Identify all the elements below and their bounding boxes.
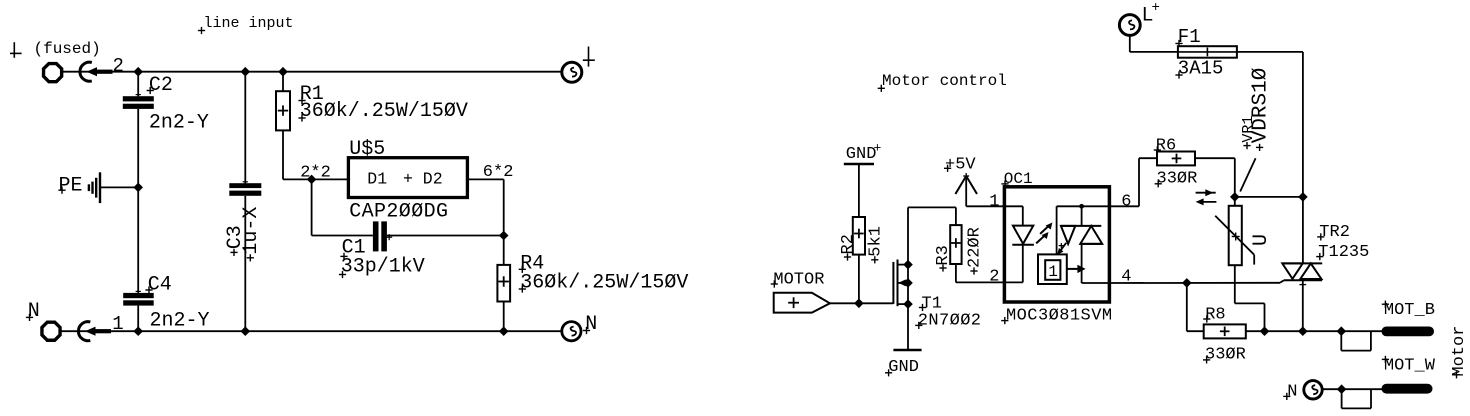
svg-text:1u-X: 1u-X	[240, 207, 263, 255]
svg-text:2: 2	[113, 55, 124, 77]
svg-text:MOT_B: MOT_B	[1384, 301, 1435, 320]
svg-text:2n2-Y: 2n2-Y	[150, 310, 210, 333]
svg-text:+: +	[1152, 0, 1160, 16]
svg-text:2N7ØØ2: 2N7ØØ2	[918, 311, 982, 330]
svg-text:PE: PE	[59, 175, 83, 198]
svg-text:N: N	[1287, 383, 1297, 402]
svg-text:line input: line input	[204, 15, 294, 32]
svg-text:33ØR: 33ØR	[1157, 169, 1198, 188]
svg-text:3A15: 3A15	[1178, 57, 1224, 79]
svg-text:22ØR: 22ØR	[966, 227, 985, 268]
svg-text:1: 1	[1048, 263, 1058, 281]
svg-text:MOT_W: MOT_W	[1384, 356, 1436, 375]
svg-text:C2: C2	[149, 74, 173, 97]
svg-text:D2: D2	[423, 169, 443, 188]
svg-text:R3: R3	[934, 245, 953, 265]
svg-text:GND: GND	[846, 145, 877, 164]
svg-text:36Øk/.25W/15ØV: 36Øk/.25W/15ØV	[300, 100, 468, 123]
svg-text:F1: F1	[1178, 26, 1201, 48]
svg-text:D1: D1	[367, 169, 387, 188]
svg-text:36Øk/.25W/15ØV: 36Øk/.25W/15ØV	[520, 272, 688, 295]
svg-text:Motor control: Motor control	[882, 72, 1007, 90]
svg-text:+5V: +5V	[945, 156, 976, 175]
svg-text:U$5: U$5	[349, 138, 385, 161]
svg-text:6*2: 6*2	[483, 163, 514, 182]
svg-text:TR2: TR2	[1319, 223, 1350, 242]
svg-text:5k1: 5k1	[866, 226, 885, 257]
svg-text:VDRS1Ø: VDRS1Ø	[1250, 68, 1273, 144]
svg-text:+: +	[874, 141, 882, 156]
svg-text:2n2-Y: 2n2-Y	[149, 111, 209, 134]
svg-text:R2: R2	[839, 234, 858, 254]
svg-text:GND: GND	[888, 358, 919, 377]
svg-text:+: +	[403, 169, 413, 188]
svg-text:MOTOR: MOTOR	[773, 270, 824, 289]
svg-text:2: 2	[989, 268, 999, 287]
svg-text:1: 1	[112, 313, 123, 335]
svg-text:C4: C4	[148, 273, 172, 296]
svg-text:(fused): (fused)	[34, 40, 101, 58]
svg-text:33p/1kV: 33p/1kV	[341, 255, 425, 278]
svg-text:R6: R6	[1156, 136, 1176, 155]
svg-text:2*2: 2*2	[300, 163, 331, 182]
svg-text:Motor: Motor	[1450, 326, 1469, 377]
svg-text:33ØR: 33ØR	[1205, 346, 1246, 365]
svg-text:OC1: OC1	[1004, 170, 1033, 188]
svg-text:CAP2ØØDG: CAP2ØØDG	[349, 201, 448, 224]
svg-text:MOC3Ø81SVM: MOC3Ø81SVM	[1006, 306, 1113, 325]
svg-text:6: 6	[1121, 192, 1131, 211]
svg-text:T1235: T1235	[1318, 243, 1369, 262]
svg-text:1: 1	[989, 192, 999, 211]
svg-text:R8: R8	[1205, 305, 1225, 324]
svg-text:U: U	[1250, 234, 1273, 246]
